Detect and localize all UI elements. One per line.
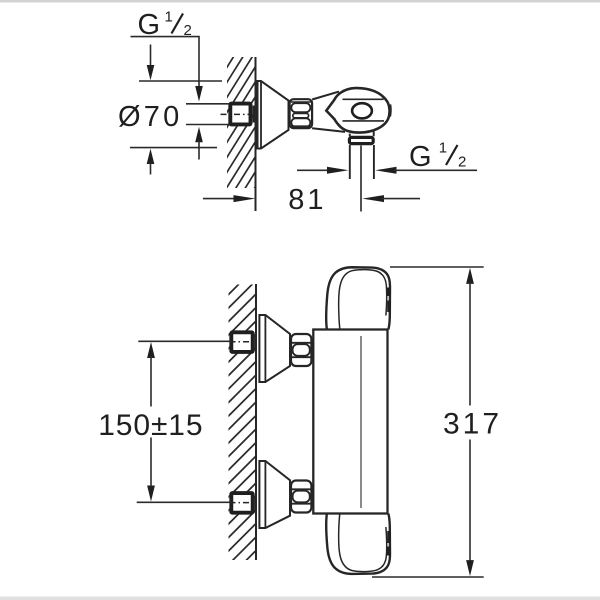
rib lower barrel xyxy=(291,118,310,127)
body inner highlight line xyxy=(360,336,362,508)
top cap inner parting line xyxy=(339,270,387,330)
svg-text:G: G xyxy=(409,141,432,173)
wall union square nut (top view) xyxy=(230,104,250,125)
317 bottom extension line xyxy=(372,576,484,578)
wall face line (top view) xyxy=(255,57,257,211)
cone base ring line xyxy=(260,81,262,149)
scan artifact bottom edge xyxy=(0,597,600,600)
150 lower extension line xyxy=(137,501,230,503)
outlet flange xyxy=(349,137,373,143)
bottom cap grip marks xyxy=(387,531,391,556)
lower inlet square nut xyxy=(231,493,252,513)
washer sliver right of nut xyxy=(253,106,255,123)
head right edge mark xyxy=(388,105,392,117)
arrow up to nut bottom xyxy=(195,127,203,143)
150 arrow down xyxy=(150,438,152,489)
wall face line (front view) xyxy=(255,284,257,560)
wall hatching (top view wall) xyxy=(224,19,257,237)
bottom cap (volume handle) xyxy=(326,514,390,574)
81 right arrow to pipe centre xyxy=(362,195,384,202)
cone top extension line xyxy=(139,80,222,82)
outlet pipe centre line xyxy=(360,146,362,212)
pipe thread dimension right arrow xyxy=(375,167,396,174)
outlet neck below head xyxy=(350,131,374,136)
rib upper barrel xyxy=(291,103,310,112)
svg-text:81: 81 xyxy=(288,184,326,216)
outlet pipe xyxy=(350,145,374,179)
lower hex union nut xyxy=(291,481,311,513)
svg-text:317: 317 xyxy=(443,408,502,441)
81 left line and arrow to wall face xyxy=(203,198,235,200)
upper escutcheon cone xyxy=(259,315,290,382)
nut bottom extension line xyxy=(186,124,229,126)
head chord line lower xyxy=(343,120,385,122)
top cap (thermostat handle) xyxy=(326,267,390,329)
lower cone base line xyxy=(264,461,266,528)
lower centre line dash xyxy=(230,502,252,504)
317 arrow down xyxy=(469,440,471,564)
upper hex barrel xyxy=(293,344,310,356)
upper inlet washer sliver xyxy=(253,335,255,351)
mixer head almond body (top view) xyxy=(326,88,389,133)
upper cone base line xyxy=(264,315,266,382)
svg-text:2: 2 xyxy=(458,154,466,171)
pipe thread dimension line left arrow xyxy=(297,169,334,171)
upper hex union nut xyxy=(291,334,311,366)
head chord line upper xyxy=(343,98,384,100)
wall hatching (front view wall) xyxy=(225,264,259,582)
mixer body rectangle xyxy=(313,330,387,514)
upper centre line dash xyxy=(230,341,252,343)
neck to head top line xyxy=(312,92,339,100)
lower hex barrel xyxy=(293,491,310,503)
upper inlet square nut xyxy=(231,332,252,352)
317 arrow up xyxy=(466,268,474,284)
scan artifact top edge xyxy=(0,0,600,3)
rib middle barrel xyxy=(293,113,309,117)
svg-text:Ø70: Ø70 xyxy=(118,101,182,133)
150 arrow up xyxy=(147,342,155,358)
O70 arrow down to cone top xyxy=(150,45,152,67)
nut top extension line xyxy=(186,103,229,105)
escutcheon cone (top view) xyxy=(258,81,289,149)
G1/2 leader underline and arrow down to nut xyxy=(131,37,200,86)
head centre ring xyxy=(352,103,372,118)
neck to head bottom line xyxy=(312,128,345,132)
150 upper extension line xyxy=(138,340,229,342)
svg-text:1: 1 xyxy=(439,140,447,157)
lower escutcheon cone xyxy=(259,461,290,528)
union nut ribbed (top view) xyxy=(290,99,313,128)
svg-text:1: 1 xyxy=(165,9,173,26)
centre line through nut (dash-dot) xyxy=(221,113,250,115)
svg-text:150±15: 150±15 xyxy=(98,409,203,442)
top cap grip marks xyxy=(387,288,391,313)
cone bottom extension line xyxy=(130,147,217,149)
317 top extension line xyxy=(390,266,484,268)
G1/2 right leader line xyxy=(394,169,477,171)
O70 arrow up to cone bottom xyxy=(147,149,155,164)
lower inlet washer sliver xyxy=(253,496,255,512)
bottom cap inner parting line xyxy=(339,514,387,572)
